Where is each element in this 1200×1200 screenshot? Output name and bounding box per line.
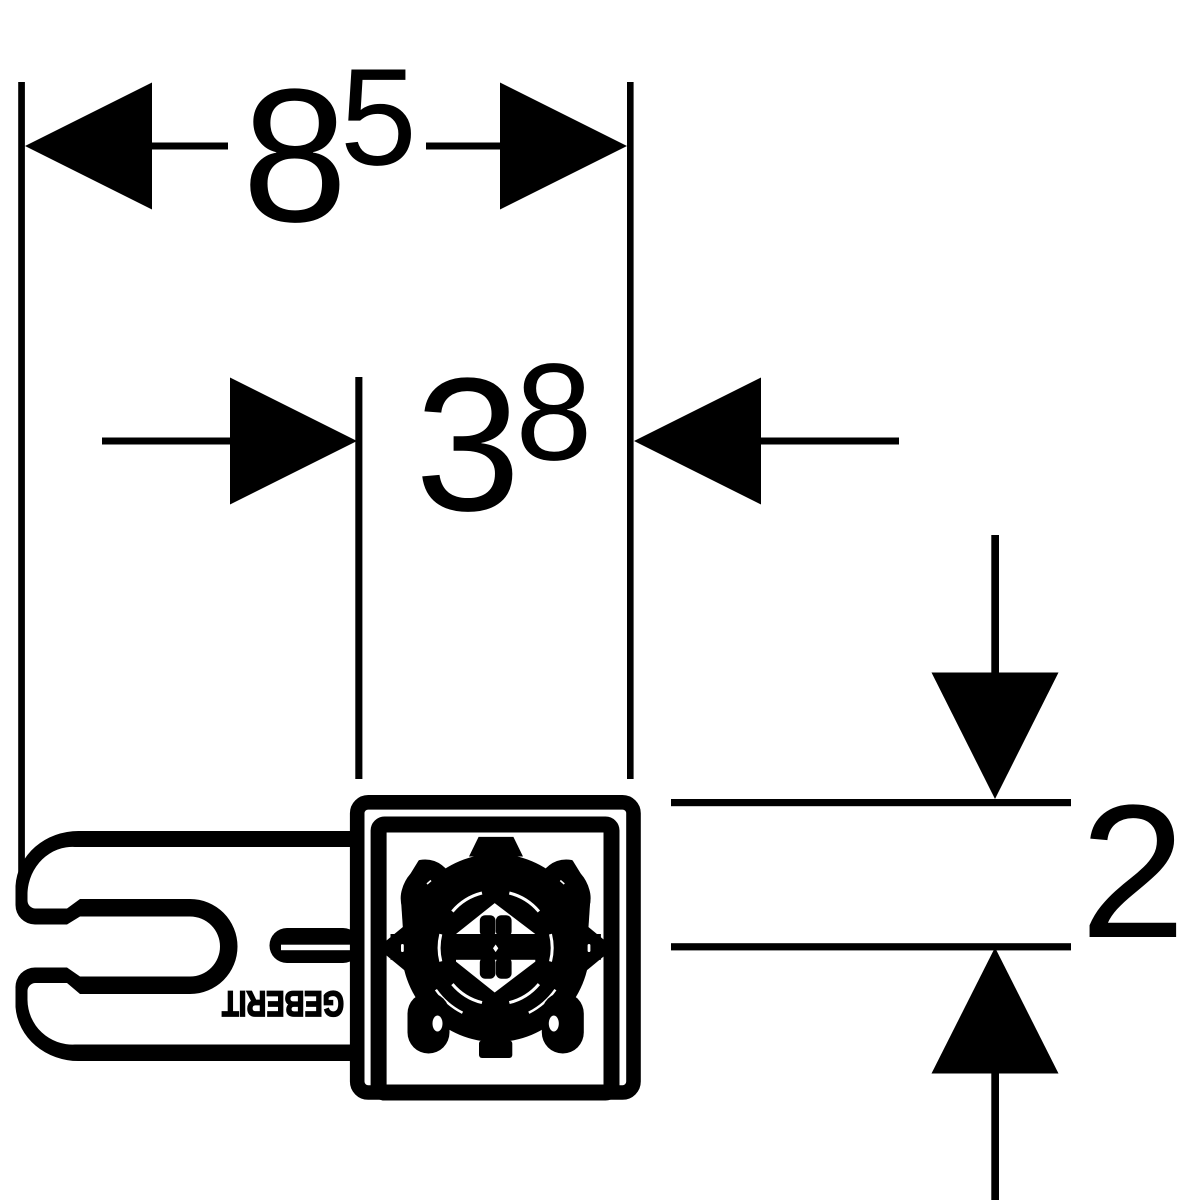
svg-text:3: 3 <box>415 339 521 551</box>
knob top tab <box>469 837 523 857</box>
extension line middle (dim 38) <box>355 377 362 779</box>
dimension label 85 <box>242 41 417 263</box>
svg-text:2: 2 <box>1080 766 1186 978</box>
flange inner frame <box>379 825 612 1093</box>
knob left leg <box>408 993 450 1054</box>
dimension 38 right arrow <box>634 378 899 505</box>
knob upper-left lump <box>403 862 448 913</box>
knob cross bar <box>391 934 601 960</box>
knob outer edge slivers <box>401 944 590 952</box>
dimension 2 upper reference line <box>671 799 1071 806</box>
knob right leg <box>542 993 584 1054</box>
dimension 2 upper arrow <box>932 535 1059 799</box>
knob side shoulder patches <box>401 900 590 930</box>
dimension 38 left arrow <box>102 378 357 505</box>
knob bottom foot <box>479 1041 512 1059</box>
tongue plate <box>270 928 361 963</box>
knob white ring arcs <box>439 893 552 1003</box>
svg-text:8: 8 <box>242 50 348 262</box>
svg-text:5: 5 <box>340 41 417 195</box>
dimension label 2 <box>1080 766 1186 978</box>
dimension 85 right arrow <box>426 83 627 210</box>
knob clover screw drive <box>480 915 512 979</box>
extension line left (dim 85) <box>18 82 25 876</box>
GEBERIT text (rotated 180) <box>222 983 344 1022</box>
knob left tab <box>385 925 405 971</box>
dimension 2 lower reference line <box>671 943 1071 950</box>
extension line right (dim 85/38) <box>627 82 634 779</box>
knob leg separation arcs <box>436 990 556 1013</box>
dimension label 38 <box>415 336 592 552</box>
knob hexagon recess <box>456 903 535 992</box>
flange outer frame <box>357 802 633 1092</box>
dimension 85 left arrow <box>25 83 228 210</box>
knob leg notches <box>433 1016 559 1032</box>
knob right tab <box>586 925 606 971</box>
knob disc <box>402 854 590 1042</box>
svg-text:8: 8 <box>516 336 593 490</box>
knob upper-right lump <box>543 862 588 913</box>
svg-text:GEBERIT: GEBERIT <box>222 983 344 1022</box>
knob center diamond <box>493 945 498 953</box>
dimension 2 lower arrow <box>932 948 1059 1200</box>
bracket outline (mounting clip) <box>15 831 356 1061</box>
